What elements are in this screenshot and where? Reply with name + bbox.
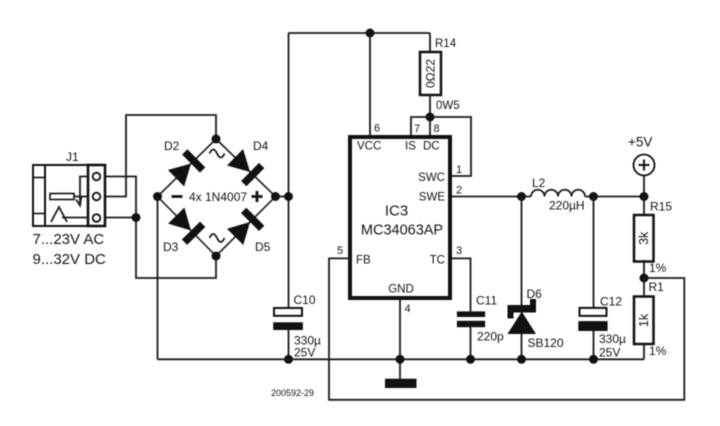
resistor R15: [634, 197, 672, 279]
svg-text:SWE: SWE: [419, 192, 446, 204]
diode D4: [226, 148, 264, 186]
svg-text:9...32V DC: 9...32V DC: [33, 251, 107, 268]
svg-text:D5: D5: [255, 240, 271, 254]
wire J1 middle terminal to bridge AC top: [105, 115, 216, 197]
svg-text:0W5: 0W5: [436, 100, 460, 112]
svg-text:220p: 220p: [477, 330, 504, 344]
svg-text:3: 3: [456, 245, 462, 257]
junction dot J1 terminals: [132, 213, 141, 222]
bridge rectifier diamond: [158, 139, 276, 256]
svg-text:D4: D4: [253, 139, 269, 153]
svg-text:C10: C10: [294, 293, 316, 307]
node bridge right: [271, 192, 280, 201]
svg-text:1k: 1k: [637, 313, 651, 327]
resistor R14: [420, 33, 460, 117]
junction dot pin 4 ground: [396, 355, 405, 364]
svg-text:7: 7: [414, 123, 420, 135]
svg-text:R15: R15: [650, 200, 672, 214]
svg-text:4: 4: [405, 303, 411, 315]
svg-text:D3: D3: [163, 240, 179, 254]
diode D2: [167, 149, 205, 187]
svg-text:1%: 1%: [649, 261, 667, 275]
wire ground rail: [158, 358, 645, 360]
svg-text:C12: C12: [600, 295, 622, 309]
svg-text:VCC: VCC: [357, 141, 381, 153]
wire feedback loop to pin 5 FB: [329, 258, 684, 399]
svg-text:7...23V AC: 7...23V AC: [33, 231, 105, 248]
svg-text:8: 8: [434, 123, 440, 135]
svg-text:0Ω22: 0Ω22: [424, 59, 438, 88]
svg-text:IS: IS: [405, 141, 416, 153]
svg-text:200592-29: 200592-29: [271, 388, 314, 398]
svg-text:1: 1: [456, 164, 462, 176]
svg-text:SB120: SB120: [528, 336, 564, 350]
svg-text:J1: J1: [66, 150, 79, 164]
node bridge bottom: [212, 252, 221, 261]
wire L2 to R15 node: [585, 196, 644, 198]
junction dot C12 top: [589, 192, 598, 201]
junction dot C12 ground: [589, 355, 598, 364]
diode D5: [226, 208, 264, 246]
svg-text:R14: R14: [435, 38, 457, 50]
svg-text:D2: D2: [164, 139, 180, 153]
wire pin 6 stub: [369, 33, 371, 135]
wire top bus from bridge plus rail to R14: [289, 32, 431, 34]
wire to pin 7: [411, 117, 430, 135]
svg-text:SWC: SWC: [418, 172, 445, 184]
junction dot R14 to pins 7-8: [426, 113, 435, 122]
node bridge top: [212, 135, 221, 144]
ac squiggle bottom: [210, 234, 225, 242]
svg-text:6: 6: [374, 123, 380, 135]
junction dot C10 ground: [284, 355, 293, 364]
svg-text:IC3: IC3: [385, 203, 408, 220]
diode D6 schottky: [508, 197, 564, 360]
resistor R1: [634, 278, 667, 359]
wire pin 3 TC to C11: [452, 258, 471, 311]
wire bridge right node to plus rail: [276, 196, 289, 198]
svg-text:C11: C11: [476, 294, 497, 308]
svg-text:25V: 25V: [599, 346, 620, 360]
junction dot plus rail: [284, 192, 293, 201]
junction dot C11 ground: [466, 355, 475, 364]
connector J1 barrel jack: [33, 150, 105, 226]
svg-text:1%: 1%: [649, 344, 667, 358]
svg-text:R1: R1: [649, 280, 665, 294]
node bridge left: [153, 192, 162, 201]
svg-text:GND: GND: [388, 284, 414, 296]
svg-text:L2: L2: [532, 176, 546, 190]
svg-text:5: 5: [337, 245, 343, 257]
svg-text:220µH: 220µH: [549, 199, 585, 213]
wire to pin 1 SWC: [430, 117, 471, 176]
junction dot feedback divider: [640, 274, 649, 283]
svg-text:TC: TC: [430, 255, 445, 267]
ground symbol: [385, 379, 417, 388]
svg-text:4x 1N4007: 4x 1N4007: [189, 190, 247, 204]
svg-text:FB: FB: [356, 255, 371, 267]
op IC3 MC34063AP body: [350, 137, 450, 298]
junction dot D6 ground: [517, 355, 526, 364]
node VCC bus junction: [366, 29, 375, 38]
wire pin 4 to ground: [399, 298, 401, 379]
diode D3: [167, 207, 205, 245]
wire SWE output line: [452, 196, 531, 198]
wire plus rail vertical to C10: [288, 33, 290, 308]
svg-text:2: 2: [456, 185, 462, 197]
svg-text:MC34063AP: MC34063AP: [361, 223, 443, 239]
svg-text:25V: 25V: [294, 346, 315, 360]
svg-text:330µ: 330µ: [599, 332, 626, 346]
svg-text:D6: D6: [527, 287, 543, 301]
svg-text:3k: 3k: [637, 231, 651, 245]
junction dot D6 top: [517, 192, 526, 201]
label minus: [172, 195, 183, 198]
wire to pin 8: [429, 117, 431, 135]
supply +5V terminal: [628, 135, 655, 197]
svg-text:+5V: +5V: [628, 135, 652, 150]
wire J1 bottom terminal: [105, 217, 136, 219]
label plus: [252, 195, 263, 198]
junction dot R15 top: [640, 192, 649, 201]
svg-text:DC: DC: [423, 141, 440, 153]
ac squiggle top: [210, 150, 225, 158]
capacitor C12: [578, 197, 626, 360]
wire J1 top terminal to bridge AC bottom: [105, 177, 216, 279]
wire bridge left node to ground rail: [157, 197, 159, 360]
capacitor C11: [457, 294, 504, 360]
inductor L2: [531, 176, 585, 213]
capacitor C10: [273, 293, 321, 360]
